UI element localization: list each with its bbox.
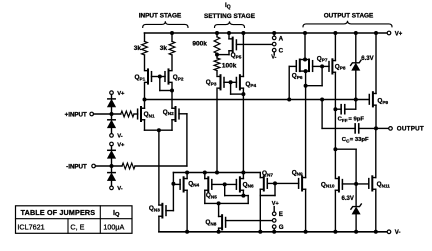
wire QN3 gate lead [166,210,173,212]
wire QN1 source down [144,120,146,130]
op QP1 [135,69,152,83]
wire gate tie to QP2 drain [160,77,172,91]
node 900k 100k junction [215,53,219,57]
label V- under C [271,52,276,61]
n QN8 [205,215,225,229]
node CC tap [320,98,324,102]
svg-text:INPUT STAGE: INPUT STAGE [139,12,182,19]
wire second stage node [173,172,260,174]
capacitor CFF 9pF [338,105,365,123]
wire QP5 source [228,33,230,39]
capacitor CC 33pF [342,124,369,143]
terminal V+ top right [387,31,403,37]
wire gate tie to QP4 drain [231,82,244,94]
title IQ SETTING STAGE [204,2,256,20]
wire QN8 drain [218,203,220,216]
wire QN5 QN6 gate line [212,183,237,185]
svg-text:100μA: 100μA [103,222,124,231]
svg-text:QP4: QP4 [245,81,256,88]
svg-text:QP5: QP5 [231,52,242,59]
terminal jumper wire circle [272,219,276,223]
n QN6 [236,177,254,191]
wire zener1 to gate node [355,70,357,99]
n QN5 [205,177,217,199]
wire QN10 source to rail [334,190,336,232]
wire QN7 QN9 gate line [267,182,298,184]
svg-text:IQ: IQ [113,208,120,218]
wire QP8 drain down [334,72,336,177]
wire QP1 drain down [144,84,146,100]
wire QN8 gate to jumper [226,220,273,222]
wire QP5 drain to 900k junction [217,51,229,55]
node QN4 drain junction [185,171,189,175]
node QN4 source rail [185,230,189,234]
brace output stage [303,21,392,27]
wire QN3 source to rail [158,216,160,232]
wire QN11 source to rail [375,189,377,232]
svg-text:TABLE OF JUMPERS: TABLE OF JUMPERS [21,208,96,217]
terminal C [272,48,283,55]
wire D1 to +input node [111,106,113,114]
brace input stage [143,21,188,27]
svg-text:E: E [279,211,283,218]
wire CFF right [345,100,356,110]
diode D4 V- to -input [107,173,115,181]
svg-text:QP1: QP1 [135,74,146,81]
diode D3 -input to V+ [107,150,115,158]
terminal V- bottom right [387,230,400,236]
resistor 100k [214,55,237,76]
wire V+ to diode D1 [111,95,113,99]
svg-text:ICL7621: ICL7621 [17,222,44,231]
op QP2 [165,69,184,83]
wire QP5 gate to jumper [236,43,272,45]
n QN1 [138,107,155,121]
node QP3 QP4 gate tie [229,80,233,84]
terminal jumper gate circle [272,42,276,46]
wire D2 to V- [111,127,113,134]
terminal -INPUT [66,163,95,170]
svg-text:IQ: IQ [225,2,231,10]
node zener2 gate tie [354,182,358,186]
node 3k2 top rail junction [170,31,174,35]
wire QP2 drain down to QN2 [171,84,173,109]
svg-text:V-: V- [271,55,276,61]
terminal E [272,207,283,219]
wire G to rail [273,229,275,232]
label V+ jumper [272,201,279,207]
wire QP8 gate lead [322,65,329,67]
svg-text:OUTPUT: OUTPUT [397,126,424,133]
svg-text:QP7: QP7 [317,55,328,62]
svg-text:= 33pF: = 33pF [350,137,369,143]
wire QP1 gate lead [152,76,160,78]
wire QN6 source down [242,190,244,195]
svg-text:V-: V- [117,186,123,192]
op QP5 [229,38,242,60]
svg-text:QP2: QP2 [173,74,184,81]
svg-text:G: G [279,224,284,231]
title OUTPUT STAGE [324,13,374,20]
n QN4 [180,177,199,191]
wire CC to output node [359,127,376,129]
zener D5 6.3V [351,56,374,70]
svg-text:C: C [279,48,284,55]
svg-text:V+: V+ [117,142,125,148]
wire QN7 gate to source [260,183,275,195]
n QN9 [292,169,306,190]
node QP6 QP7 drain [304,69,308,73]
wire zener2 top [355,184,357,207]
terminal V- protection upper [110,134,123,140]
node zener1 rail [354,31,358,35]
svg-text:900k: 900k [192,40,207,47]
terminal OUTPUT [389,126,424,133]
wire resistor to QN1 gate [134,113,138,115]
svg-text:SETTING STAGE: SETTING STAGE [204,13,256,20]
wire QN9 drain up [305,71,307,177]
resistor +input series [121,111,134,117]
wire QN5 source to QN8 [205,202,248,204]
wire CFF left [335,108,341,110]
svg-text:QN10: QN10 [321,181,335,188]
terminal V+ protection lower [110,142,125,148]
wire gate tie to QN6 source [225,184,249,203]
wire -input node to D4 [111,166,113,173]
node QN10 source rail [333,230,337,234]
n QN3 [149,204,166,218]
resistor 3k right [160,33,175,69]
svg-text:C, E: C, E [70,222,84,231]
table of jumpers box [16,206,133,234]
node QP4 source rail [241,31,245,35]
svg-text:QP8: QP8 [335,63,346,70]
svg-text:QP9: QP9 [377,98,388,105]
svg-text:-INPUT: -INPUT [66,163,87,170]
svg-text:V-: V- [395,230,401,236]
svg-text:3k: 3k [134,45,142,52]
wire zener2 to rail [355,214,357,232]
wire V+ top rail [145,32,388,34]
svg-text:QN2: QN2 [163,109,174,116]
node QP2 drain gate junction [170,89,174,93]
wire QN9 source to rail [305,189,307,232]
n QN10 [321,177,343,191]
svg-text:QN5: QN5 [206,192,217,199]
resistor 900k [192,33,219,55]
op QP9 [369,92,388,106]
title INPUT STAGE [139,12,182,19]
svg-text:QN11: QN11 [377,181,391,188]
svg-text:QN3: QN3 [149,205,160,212]
node QP6 top rail [303,31,307,35]
node QP6 QP7 source [303,58,307,62]
wire QN2 gate lead [179,113,187,115]
wire QN2 source down [171,120,173,130]
terminal A [272,33,283,42]
svg-text:QN1: QN1 [144,111,155,118]
wire branch to zener2 [335,149,356,184]
op QP7 [309,55,328,71]
op QP8 [329,59,346,73]
svg-text:100k: 100k [222,63,237,70]
wire QN3 QN4 gate line [172,173,174,211]
node QN9 source rail [304,230,308,234]
terminal V- protection lower [110,186,123,192]
wire -input to QN2 gate [135,114,187,166]
wire QP6 QP7 bottom bar [300,70,309,72]
wire QP4 source [242,33,244,76]
wire QP9 drain to output [375,105,377,128]
wire +input node to D2 [111,114,113,120]
brace IQ setting stage [215,21,245,27]
terminal +INPUT [65,111,94,118]
wire tail current [158,130,160,205]
diode D2 V- to +input [107,120,115,128]
wire -input to resistor [95,165,122,167]
wire V- bottom rail [159,231,387,233]
node QP8 source rail [333,31,337,35]
zener D6 6.3V [342,196,362,214]
diode D1 +input to V+ [107,99,115,107]
resistor -input series [122,163,135,169]
svg-text:QN8: QN8 [205,219,216,226]
svg-text:QP3: QP3 [206,79,217,86]
n QN11 [369,176,391,190]
wire to OUTPUT terminal [376,127,389,129]
wire QP3 drain down [216,89,218,172]
wire QN6 drain [242,173,244,179]
wire CC branch [322,100,355,129]
wire QN1 drain [144,100,146,109]
node QN8 source rail [217,230,221,234]
wire QN4 gate lead [173,183,180,185]
wire QN8 source to rail [218,228,220,232]
node CFF tap [333,107,337,111]
wire QP4 gate lead [231,81,237,83]
wire QN4 source to rail [186,190,188,232]
node QN11 source rail [374,230,378,234]
wire QP9 source [375,33,377,93]
svg-text:QN7: QN7 [262,170,273,177]
svg-text:QN6: QN6 [243,181,254,188]
node QP6 gate junction [287,98,291,102]
node output junction [374,126,378,130]
wire QN5 drain [204,173,206,179]
svg-text:QN4: QN4 [188,180,199,187]
svg-text:V-: V- [117,134,123,140]
svg-text:CFF: CFF [338,117,348,123]
node QP4 QN6 drain junction [241,171,245,175]
node QP6 drain tap [304,84,308,88]
node common source [157,128,161,132]
node QN4 gate tap [171,182,175,186]
wire QP6 QP7 source up [304,33,306,60]
node QP4 drain gate junction [241,92,245,96]
node QP9 source rail [374,31,378,35]
node QP3 drain junction [215,171,219,175]
op QP4 [236,75,256,89]
node 900k top [215,31,219,35]
node QN5 drain junction [203,171,207,175]
wire QP8 source [334,33,336,61]
wire QP2 gate lead [160,76,165,78]
wire main gate node [145,99,370,101]
wire QP3 gate lead [224,81,231,83]
svg-text:QP6: QP6 [292,73,303,80]
wire rail to zener1 [355,33,357,63]
wire QN4 drain [186,173,188,179]
svg-text:A: A [279,35,284,42]
node zener1 gate node [354,98,358,102]
node QP7 QP8 gate tie [320,64,324,68]
op QP3 [206,75,224,89]
wire QP7 gate lead [313,65,323,67]
wire D3 to -input node [111,158,113,166]
wire QN5 source down [204,190,206,203]
wire QN11 drain [375,128,377,177]
wire QP6 QP7 top bar [300,59,309,61]
svg-text:V+: V+ [117,91,125,97]
wire gate tie to drain [306,66,323,85]
svg-text:QN9: QN9 [292,169,303,176]
op QP6 [292,60,303,80]
svg-text:+INPUT: +INPUT [65,111,87,118]
node QN6 source junction [241,194,245,198]
wire V+ to diode D3 [111,146,113,151]
node QN7 gate tie [273,181,277,185]
terminal V+ protection upper [110,91,125,97]
node QP8 drain QN11 gate branch [333,147,337,151]
n QN7 [260,170,273,191]
node QP5 source rail [227,31,231,35]
node zener2 rail [354,230,358,234]
node QP1 drain / QN1 drain [143,98,147,102]
svg-text:6.3V: 6.3V [361,56,373,62]
svg-text:= 9pF: = 9pF [348,117,364,123]
svg-text:V+: V+ [395,31,403,37]
svg-text:3k: 3k [160,45,168,52]
node QN7 source rail [258,230,262,234]
resistor 3k left [134,33,148,69]
svg-text:6.3V: 6.3V [342,196,354,202]
node +input protection [110,112,114,116]
wire QP6 gate [289,66,296,99]
node QN8 drain junction [217,201,221,205]
svg-text:OUTPUT STAGE: OUTPUT STAGE [324,13,374,20]
node QN5 QN6 gate tie [223,182,227,186]
terminal G [272,224,283,231]
wire QN7 source to rail [259,189,261,232]
wire D4 to V- [111,180,113,186]
wire QN10 QN11 gate line [342,183,368,185]
node A stub rail [272,31,276,35]
wire +input to resistor [94,113,121,115]
n QN2 [163,107,179,121]
wire QN7 drain [259,173,261,178]
wire common source [145,129,173,131]
wire QP4 drain down [242,88,244,172]
node G rail [272,230,276,234]
node -input protection [110,164,114,168]
node QP1 QP2 gate tie [158,75,162,79]
svg-text:V+: V+ [272,201,279,207]
